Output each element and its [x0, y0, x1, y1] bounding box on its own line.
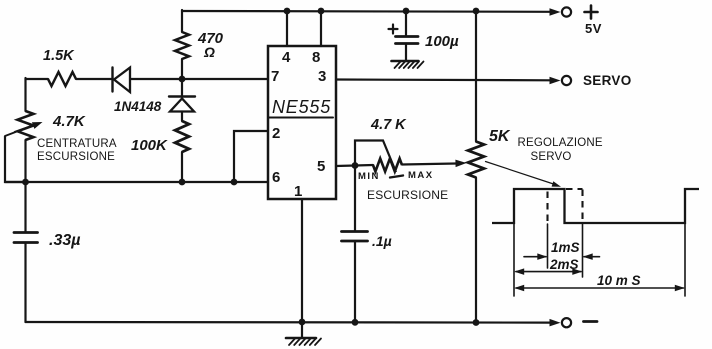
potentiometer 4.7K escursione	[373, 159, 402, 172]
wire node row y182	[5, 181, 268, 183]
pin 5 label	[317, 158, 325, 175]
svg-text:4.7K: 4.7K	[52, 113, 86, 130]
wire pin 1 down	[301, 199, 303, 322]
label SERVO	[583, 73, 632, 88]
svg-text:6: 6	[272, 169, 280, 186]
junction top rail / 100u	[403, 8, 410, 15]
wire corner to 1.5K	[26, 78, 49, 80]
svg-text:5V: 5V	[585, 21, 602, 36]
svg-text:4.7 K: 4.7 K	[370, 117, 407, 133]
capacitor C .1u	[342, 232, 368, 242]
extension line right (685)	[684, 224, 686, 296]
wire pin5 node to pot	[355, 164, 373, 167]
wire pin 4	[286, 11, 288, 46]
arrowhead SERVO	[550, 77, 561, 84]
wiper loop escursione	[355, 141, 403, 178]
pin 4 label	[282, 49, 291, 66]
svg-text:3: 3	[318, 68, 326, 85]
svg-text:4: 4	[282, 49, 291, 66]
label 10mS	[597, 273, 641, 288]
wire left vertical top	[24, 78, 26, 111]
pin 2 label	[272, 125, 280, 142]
svg-text:5K: 5K	[489, 128, 511, 145]
svg-text:10 m S: 10 m S	[597, 273, 641, 288]
wire 470 bottom lead	[181, 59, 183, 79]
wire wiper down	[5, 136, 24, 182]
svg-text:SERVO: SERVO	[531, 151, 572, 163]
junction bottom rail / .1u	[352, 319, 359, 326]
label 4.7K escursione	[370, 117, 407, 133]
label .33u	[49, 232, 80, 249]
resistor R 100K	[175, 121, 189, 152]
wire D2 to 100K	[181, 112, 183, 122]
arrowhead to +5V terminal	[550, 8, 561, 16]
wire pin5 node down	[354, 166, 356, 232]
svg-text:100µ: 100µ	[425, 33, 459, 50]
waveform dashed min edge	[546, 192, 548, 223]
terminal minus	[562, 318, 571, 327]
dimension 10mS	[514, 285, 685, 291]
potentiometer 5K	[468, 142, 484, 178]
svg-text:CENTRATURA: CENTRATURA	[37, 138, 117, 150]
junction bottom rail / 5K	[473, 319, 480, 326]
svg-text:NE555: NE555	[272, 97, 331, 117]
arrowhead 5K wiper	[455, 160, 466, 168]
potentiometer 4.7K centratura	[18, 111, 34, 140]
wire bottom rail	[26, 321, 552, 324]
pin 3 label	[318, 68, 326, 85]
extension line mid (547)	[547, 224, 549, 268]
wire pin 5 stub	[336, 164, 355, 167]
wire node to .33u	[24, 182, 26, 232]
capacitor C 100u polarized	[389, 25, 419, 44]
arrowhead minus terminal	[550, 319, 561, 327]
wire top +5V rail	[182, 10, 551, 13]
svg-text:1.5K: 1.5K	[43, 48, 75, 64]
diode D2	[169, 97, 195, 112]
junction pin5 node	[352, 162, 359, 169]
svg-text:MAX: MAX	[408, 170, 434, 181]
dimension 1mS	[524, 253, 600, 260]
svg-text:SERVO: SERVO	[583, 73, 632, 88]
capacitor C .33u	[14, 233, 38, 243]
wire pot to 5K wiper	[402, 164, 456, 165]
wire pot to node	[24, 140, 26, 182]
label CENTRATURA ESCURSIONE	[37, 138, 117, 163]
label MAX	[408, 170, 434, 181]
wire 100K to node y182	[181, 152, 183, 182]
label 1.5K	[43, 48, 75, 64]
wire pin 3 to SERVO terminal	[336, 78, 551, 81]
label .1u	[372, 233, 392, 249]
junction top rail / pin 4	[284, 8, 291, 15]
label + 5V	[585, 6, 602, 37]
label 5K	[489, 128, 511, 145]
junction y182 / pin2 loop	[231, 179, 238, 186]
svg-text:7: 7	[271, 68, 279, 85]
pin 1 label	[294, 183, 302, 200]
label MIN	[358, 171, 380, 182]
label 100K	[131, 137, 168, 154]
label 1N4148	[114, 99, 162, 114]
label 100u	[425, 33, 459, 50]
wire .1u to bottom rail	[354, 241, 356, 322]
svg-text:ESCURSIONE: ESCURSIONE	[367, 188, 448, 202]
svg-text:MIN: MIN	[358, 171, 380, 182]
wire 470 top lead	[181, 10, 183, 32]
svg-text:.1µ: .1µ	[372, 233, 392, 249]
svg-text:Ω: Ω	[203, 44, 215, 60]
wire diode to pin7	[130, 78, 268, 80]
label ESCURSIONE	[367, 188, 448, 202]
svg-text:2mS: 2mS	[549, 257, 579, 272]
junction node A (470/D1/D2/pin7)	[179, 76, 186, 83]
resistor 470	[175, 32, 189, 59]
junction top rail / pin 8	[318, 8, 325, 15]
svg-text:1N4148: 1N4148	[114, 99, 162, 114]
label 470 ohm	[197, 30, 224, 60]
junction top rail / 5K	[473, 8, 480, 15]
wire 5K to bottom rail	[475, 178, 477, 323]
junction y182 / 100K	[179, 179, 186, 186]
svg-text:REGOLAZIONE: REGOLAZIONE	[518, 137, 603, 149]
svg-text:5: 5	[317, 158, 325, 175]
wire pin 8	[320, 11, 322, 46]
wire node A to D2	[181, 79, 183, 96]
junction left node y182	[22, 179, 29, 186]
terminal +5V	[562, 7, 571, 16]
label minus	[584, 320, 598, 323]
svg-text:1: 1	[294, 183, 302, 200]
wire 100u top lead	[405, 11, 407, 36]
waveform dashed max edge	[581, 190, 583, 223]
ground main	[286, 338, 321, 345]
wire pin 2 loop	[234, 131, 268, 182]
pin 8 label	[312, 49, 320, 66]
pin 7 label	[271, 68, 279, 85]
label 1mS	[551, 240, 580, 255]
extension line left (514)	[513, 224, 515, 296]
waveform pulse train	[492, 189, 699, 223]
svg-text:8: 8	[312, 49, 320, 66]
svg-text:1mS: 1mS	[551, 240, 580, 255]
svg-text:100K: 100K	[131, 137, 168, 154]
dimension 2mS	[514, 268, 582, 275]
label 2mS	[549, 257, 579, 272]
op-amp U1 NE555 body	[268, 46, 336, 199]
ground 100u	[392, 61, 424, 68]
wire .33u to bottom rail	[24, 243, 26, 323]
pin 6 label	[272, 169, 280, 186]
label REGOLAZIONE SERVO	[518, 137, 603, 163]
label 4.7K centratura	[52, 113, 86, 130]
waveform dashed max top	[566, 188, 583, 190]
wire pin1 gnd stub	[301, 322, 303, 338]
junction bottom rail / pin1	[299, 319, 306, 326]
svg-text:.33µ: .33µ	[49, 232, 80, 249]
annotation arrow pot to waveform	[486, 162, 562, 187]
label NE555	[269, 97, 333, 118]
wire 100u to ground	[405, 44, 407, 62]
resistor R 1.5K	[48, 72, 76, 86]
wiper arrow centratura	[5, 122, 43, 136]
terminal SERVO	[562, 76, 571, 85]
svg-text:2: 2	[272, 125, 280, 142]
extension line max (582)	[582, 224, 584, 277]
svg-text:ESCURSIONE: ESCURSIONE	[37, 151, 115, 163]
diode D1 1N4148	[113, 68, 131, 93]
wire 5K top lead	[475, 11, 477, 142]
wire 1.5K to diode	[76, 78, 112, 80]
